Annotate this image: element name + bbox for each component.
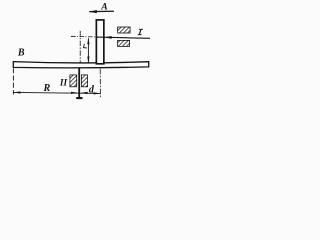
svg-text:B: B [17, 48, 25, 59]
svg-text:II: II [59, 79, 68, 89]
svg-text:R: R [43, 83, 51, 94]
svg-text:A: A [100, 2, 107, 13]
